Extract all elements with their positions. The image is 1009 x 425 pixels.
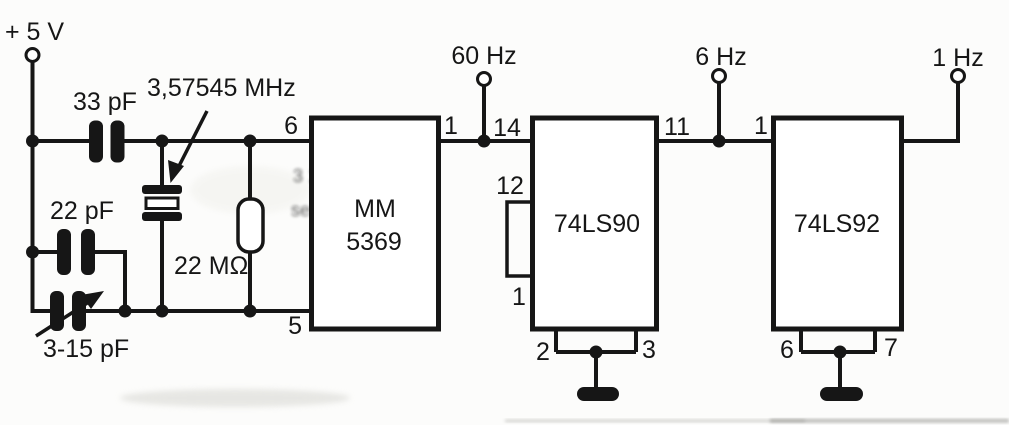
node junction resistor top <box>244 135 257 148</box>
node junction resistor bottom <box>244 305 257 318</box>
wire 22pF row left <box>33 250 59 254</box>
pin 2 stub <box>554 329 558 352</box>
svg-text:7: 7 <box>884 334 898 362</box>
capacitor 22 pF <box>57 229 95 275</box>
crystal X1 3,57545 MHz <box>142 185 182 221</box>
svg-text:1 Hz: 1 Hz <box>932 44 983 72</box>
wire bottom rail trimmer to MM5369 pin 5 <box>86 309 311 313</box>
svg-text:6 Hz: 6 Hz <box>695 43 746 71</box>
resistor 22 MOhm <box>238 199 263 252</box>
IC U2 74LS90 <box>533 118 657 329</box>
svg-text:1: 1 <box>512 283 526 311</box>
capacitor 33 pF <box>89 121 125 163</box>
wire left vertical rail to bottom rail corner <box>33 252 53 311</box>
wire 22pF right plate to drop <box>95 252 125 311</box>
node junction 22pF branch bottom <box>119 305 132 318</box>
svg-text:12: 12 <box>496 172 524 200</box>
svg-text:74LS92: 74LS92 <box>794 210 880 238</box>
wire resistor top drop <box>248 141 252 200</box>
pin 6 stub <box>799 329 803 352</box>
node junction 60Hz <box>478 135 491 148</box>
trimmer capacitor 3-15 pF <box>36 291 104 336</box>
node junction ground U3 <box>834 346 847 359</box>
node 60Hz terminal <box>478 73 491 86</box>
svg-text:se: se <box>291 200 310 220</box>
wire pins 2-3 tie <box>556 350 636 354</box>
svg-text:22 pF: 22 pF <box>50 197 114 225</box>
wire 60Hz drop <box>482 86 486 141</box>
wire to ground U3 <box>838 352 842 388</box>
svg-text:6: 6 <box>780 336 794 364</box>
node junction crystal bottom <box>156 305 169 318</box>
svg-text:1: 1 <box>754 112 768 140</box>
wire resistor bottom drop <box>248 252 252 311</box>
wire from +5V terminal down to top rail <box>31 62 35 142</box>
svg-text:5369: 5369 <box>346 228 402 256</box>
svg-text:22 MΩ: 22 MΩ <box>174 252 248 280</box>
wire top rail to 33pF left plate <box>33 139 91 143</box>
wire pins 6-7 tie <box>801 350 875 354</box>
ground U2 <box>577 387 619 401</box>
node junction top rail left <box>26 135 39 148</box>
pin 7 stub <box>873 329 877 352</box>
ground U3 <box>820 387 863 401</box>
wire 6Hz drop <box>717 83 721 141</box>
node 1Hz terminal <box>952 70 965 83</box>
svg-text:5: 5 <box>288 312 302 340</box>
svg-text:3,57545 MHz: 3,57545 MHz <box>147 74 296 102</box>
wire crystal top drop <box>160 141 164 186</box>
wire 1Hz output <box>901 83 958 141</box>
svg-text:3-15 pF: 3-15 pF <box>43 335 129 363</box>
node junction 22pF left <box>26 246 39 259</box>
pin 3 stub <box>634 329 638 352</box>
node junction 6Hz <box>713 135 726 148</box>
svg-text:14: 14 <box>493 114 521 142</box>
svg-text:74LS90: 74LS90 <box>554 210 640 238</box>
node junction ground U2 <box>590 346 603 359</box>
svg-text:3: 3 <box>642 336 656 364</box>
wire 74LS90 pin11 to 74LS92 pin1 <box>657 139 773 143</box>
svg-text:33 pF: 33 pF <box>73 88 137 116</box>
wire MM5369 pin1 to 74LS90 pin14 <box>439 139 532 143</box>
wire 33pF right plate to MM5369 pin 6 <box>124 139 311 143</box>
node junction crystal top <box>156 135 169 148</box>
wire to ground U2 <box>594 352 598 388</box>
arrow from label to crystal <box>168 111 207 183</box>
wire left vertical rail to 22pF row <box>31 141 35 252</box>
svg-text:6: 6 <box>284 112 298 140</box>
node +5V terminal <box>26 49 39 62</box>
svg-text:11: 11 <box>664 113 690 141</box>
svg-text:+ 5 V: + 5 V <box>5 18 64 46</box>
IC U1 MM5369 <box>312 118 439 329</box>
svg-text:1: 1 <box>444 112 458 140</box>
svg-text:2: 2 <box>536 338 550 366</box>
node 6Hz terminal <box>713 70 726 83</box>
wire crystal bottom drop <box>160 221 164 311</box>
pin 12 to pin 1 feedback loop <box>507 202 532 276</box>
IC U3 74LS92 <box>774 118 902 329</box>
svg-text:60 Hz: 60 Hz <box>451 42 516 70</box>
svg-text:MM: MM <box>354 195 396 223</box>
